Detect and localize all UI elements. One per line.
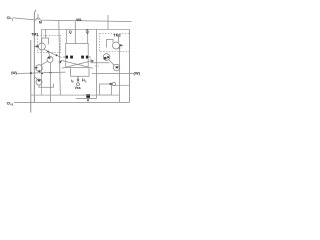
Q3 gate mark [48, 57, 50, 59]
svg-text:(W): (W) [11, 71, 17, 75]
transistor TM2 [113, 42, 120, 49]
wire right inner branch [119, 46, 121, 103]
wire TM1 loop to box top [45, 30, 47, 39]
wire left branch down [50, 63, 52, 103]
node junction dot [119, 47, 121, 49]
svg-text:1: 1 [85, 79, 87, 83]
svg-text:Vss: Vss [75, 86, 81, 90]
current source circle [77, 83, 80, 86]
latch block U1 [66, 44, 89, 68]
transistor TM2 gate arrow [120, 44, 124, 46]
transistor Q8 bottom right gate mark [110, 83, 112, 85]
left inner dashed box [38, 36, 61, 53]
svg-text:2: 2 [12, 103, 14, 107]
node junction dot [41, 72, 43, 74]
transistor Q4 left [36, 65, 43, 72]
wire CL2 bottom line [14, 101, 130, 103]
wire left second branch [59, 20, 61, 95]
svg-text:TM1: TM1 [31, 33, 38, 37]
N1 gate stub arrow [63, 56, 65, 58]
transistor TM1 [38, 43, 45, 50]
N2 gate stub arrow [88, 56, 90, 58]
wire right outer vertical to CL2 line [129, 29, 131, 102]
wire TM2 feed from label [118, 37, 120, 43]
wire top feed x108 [107, 15, 109, 29]
wire WL top line with hop [34, 18, 131, 22]
wire Q3 top link [48, 52, 50, 57]
wire Qbar stub [87, 29, 89, 43]
svg-text:WL: WL [76, 17, 83, 22]
right inner dashed box [100, 34, 130, 52]
wire bottom center horizontal [76, 98, 97, 100]
transistor Q6 right mid [103, 54, 110, 61]
wire Q stub [65, 29, 67, 43]
ground arrow under contact [87, 98, 89, 101]
dashed stub right box bottom [95, 65, 100, 67]
wire latch tail bracket [71, 68, 90, 76]
wire TM1 drain loop [42, 38, 49, 44]
svg-text:0: 0 [72, 80, 74, 84]
stub above WL line [37, 14, 39, 20]
Q7 mark [116, 66, 119, 68]
wire box bottom line [31, 94, 120, 96]
svg-text:(W): (W) [134, 70, 141, 75]
wire TM2 drain loop [107, 40, 114, 48]
Q6 mark [104, 57, 107, 59]
svg-text:Q: Q [86, 30, 89, 34]
node junction dot [56, 54, 58, 56]
wire TM1 source diagonal [45, 49, 62, 57]
wire center feed to latch [74, 21, 76, 43]
svg-text:M: M [39, 20, 42, 24]
transistor Q3 left mid [47, 57, 53, 63]
transistor Q8 circle [112, 83, 115, 86]
wire CL2 left vertical [30, 40, 32, 113]
svg-text:TM2: TM2 [114, 33, 121, 37]
current source arrow I0 [77, 76, 79, 80]
node dark contact square [86, 94, 90, 98]
transistor N1 inside latch [66, 56, 68, 59]
transistor Q5 left lower [36, 79, 42, 85]
outer cell box [42, 29, 130, 95]
node junction dot [47, 51, 49, 53]
transistor N2 inside latch [81, 56, 84, 59]
wire Q5 source stub [39, 84, 54, 88]
wire Q3-Q4 link [41, 61, 48, 65]
transistor Q7 right lower [113, 64, 120, 71]
Q5 gate mark [38, 80, 41, 82]
wire left mid horizontal [17, 72, 66, 73]
current arrow I1 [82, 78, 84, 80]
wire cross-couple X [62, 61, 93, 69]
tick top of CL1 bus [34, 10, 36, 13]
wire Q6-Q7 link [109, 60, 114, 65]
transistor TM1 gate arrow [34, 45, 37, 47]
wire W2 lead [92, 72, 134, 74]
wire CL1 lead [13, 18, 35, 20]
svg-text:Q: Q [69, 30, 72, 34]
Q5 gate lead from bus [34, 77, 37, 80]
wire right feed x96 [96, 29, 98, 98]
wire right lower horizontal [116, 84, 130, 86]
wire CL1 vertical bus [33, 13, 35, 102]
component box B1 bottom right [100, 84, 112, 95]
wire right mid horizontal [90, 62, 109, 64]
Q4 gate arrow [34, 67, 36, 69]
